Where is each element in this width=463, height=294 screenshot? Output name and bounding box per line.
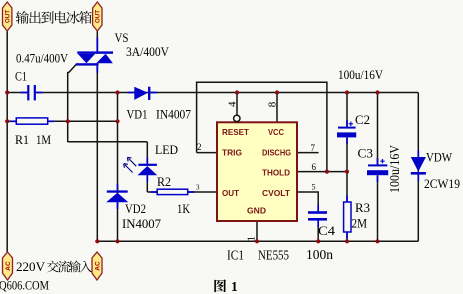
capacitor C3 (electrolytic)	[368, 164, 387, 166]
svg-text:GND: GND	[247, 207, 266, 216]
svg-text:C1: C1	[15, 69, 27, 84]
svg-text:C2: C2	[355, 112, 370, 127]
svg-text:VD1: VD1	[127, 107, 148, 122]
svg-text:AC: AC	[5, 261, 12, 271]
wire: CVOLT pin row to C4	[297, 192, 318, 211]
wire: pin4 stub	[236, 93, 238, 116]
wire: C4 lead stubs	[317, 205, 319, 212]
svg-text:100n: 100n	[306, 247, 333, 262]
svg-text:IC1: IC1	[227, 247, 244, 262]
wire: C4 bottom lead	[317, 221, 319, 242]
wire: right rail down to zener	[417, 93, 419, 242]
svg-text:OUT: OUT	[95, 10, 102, 23]
caption 图 1	[214, 279, 226, 292]
resistor R2	[157, 189, 188, 194]
terminal X1 output to refrigerator (left)	[3, 2, 12, 31]
svg-text:VDW: VDW	[426, 150, 453, 165]
wire: TRIG-THOLD link rail	[197, 82, 327, 171]
svg-text:1: 1	[246, 236, 258, 242]
wire: VD2 lead stubs	[117, 184, 119, 191]
svg-text:100u/16V: 100u/16V	[387, 145, 402, 193]
label: title 输出到电冰箱	[16, 11, 29, 24]
wire: bottom rail	[97, 240, 418, 242]
svg-text:AC: AC	[94, 261, 101, 271]
svg-text:THOLD: THOLD	[262, 169, 290, 178]
svg-text:4: 4	[226, 101, 238, 107]
wire: R1 row	[7, 120, 117, 122]
C2 plus sign	[349, 122, 353, 126]
svg-text:1: 1	[231, 279, 238, 294]
LED emission arrows	[124, 157, 137, 172]
wire: R2 lead stubs	[151, 191, 158, 193]
wire: R1 lead stubs	[10, 120, 16, 122]
wire: C2 lead stubs	[346, 120, 348, 127]
wire: pin8 stub	[276, 93, 278, 123]
diode VD2	[107, 190, 128, 192]
wire: DISCHG pin stub	[297, 152, 319, 154]
terminal X2 output to refrigerator (right)	[93, 2, 102, 31]
wire: LED lead stubs	[146, 157, 148, 164]
svg-text:1M: 1M	[36, 132, 51, 147]
svg-text:IN4007: IN4007	[156, 107, 191, 122]
C3 plus sign	[380, 159, 384, 163]
svg-text:0.47u/400V: 0.47u/400V	[16, 51, 69, 66]
wire: top horizontal net (C1/VD1 row to right rail)	[7, 92, 418, 94]
svg-text:2CW19: 2CW19	[424, 176, 460, 191]
wire: C3 vertical	[377, 93, 379, 165]
svg-text:3: 3	[196, 183, 200, 191]
wire: C1 lead stubs	[21, 92, 28, 94]
triac VS	[76, 38, 113, 73]
pin 4 inversion bubble	[234, 115, 240, 121]
svg-text:RESET: RESET	[222, 128, 249, 137]
svg-text:VCC: VCC	[268, 128, 284, 137]
svg-text:CVOLT: CVOLT	[262, 189, 290, 198]
svg-text:TRIG: TRIG	[222, 148, 242, 157]
svg-text:3A/400V: 3A/400V	[126, 44, 170, 59]
svg-text:8: 8	[267, 101, 279, 107]
wire: GND pin	[256, 221, 258, 241]
capacitor C4	[308, 211, 327, 214]
capacitor C1	[27, 85, 29, 100]
svg-text:1K: 1K	[177, 201, 190, 216]
wire: VD2 branch vertical	[117, 93, 119, 242]
svg-text:IN4007: IN4007	[122, 216, 161, 231]
triac VS gate lead	[68, 64, 77, 142]
wire: C3 lead stubs	[377, 158, 379, 165]
wire: C2/R3 vertical	[346, 93, 348, 127]
svg-text:VD2: VD2	[125, 201, 146, 216]
resistor R1	[16, 118, 47, 124]
svg-text:R1: R1	[15, 132, 29, 147]
diode VD1	[134, 87, 148, 100]
junction dots	[5, 90, 9, 94]
svg-text:VS: VS	[115, 30, 129, 45]
wire: OUT pin row with R2	[147, 191, 217, 193]
wire: main AC vertical (triac branch)	[96, 31, 98, 241]
wire: VDW lead stubs	[417, 151, 419, 158]
svg-text:Q606.COM: Q606.COM	[0, 277, 49, 292]
capacitor C2 (electrolytic)	[338, 127, 356, 129]
terminal X4 220V AC input (right)	[92, 252, 102, 280]
wire: THOLD pin row	[297, 171, 347, 173]
svg-text:100u/16V: 100u/16V	[338, 67, 384, 82]
svg-text:DISCHG: DISCHG	[262, 148, 291, 157]
svg-text:2: 2	[197, 142, 202, 152]
svg-text:C3: C3	[358, 146, 374, 161]
zener diode VDW	[411, 157, 426, 172]
svg-text:2M: 2M	[352, 216, 368, 231]
wire: VD1 lead stubs	[128, 92, 135, 94]
svg-text:5: 5	[312, 182, 316, 191]
wire: TRIG pin stub	[197, 152, 217, 154]
LED	[138, 164, 157, 166]
wire: gate to LED link row	[68, 141, 148, 143]
resistor R3	[344, 202, 351, 232]
svg-text:6: 6	[312, 162, 317, 172]
svg-text:OUT: OUT	[222, 189, 239, 198]
wire: left rail	[6, 31, 8, 254]
wire: R3 lead stubs	[346, 196, 348, 203]
svg-text:7: 7	[311, 143, 316, 153]
svg-text:R3: R3	[355, 200, 370, 215]
svg-text:C4: C4	[318, 223, 336, 238]
wire: LED branch vertical	[146, 142, 148, 165]
svg-text:220V: 220V	[16, 259, 46, 274]
terminal X3 220V AC input (left)	[3, 252, 13, 280]
svg-text:NE555: NE555	[258, 247, 289, 262]
svg-text:R2: R2	[157, 174, 171, 189]
svg-text:OUT: OUT	[5, 10, 12, 23]
svg-text:LED: LED	[155, 142, 178, 157]
IC U1 NE555 body	[217, 122, 297, 221]
